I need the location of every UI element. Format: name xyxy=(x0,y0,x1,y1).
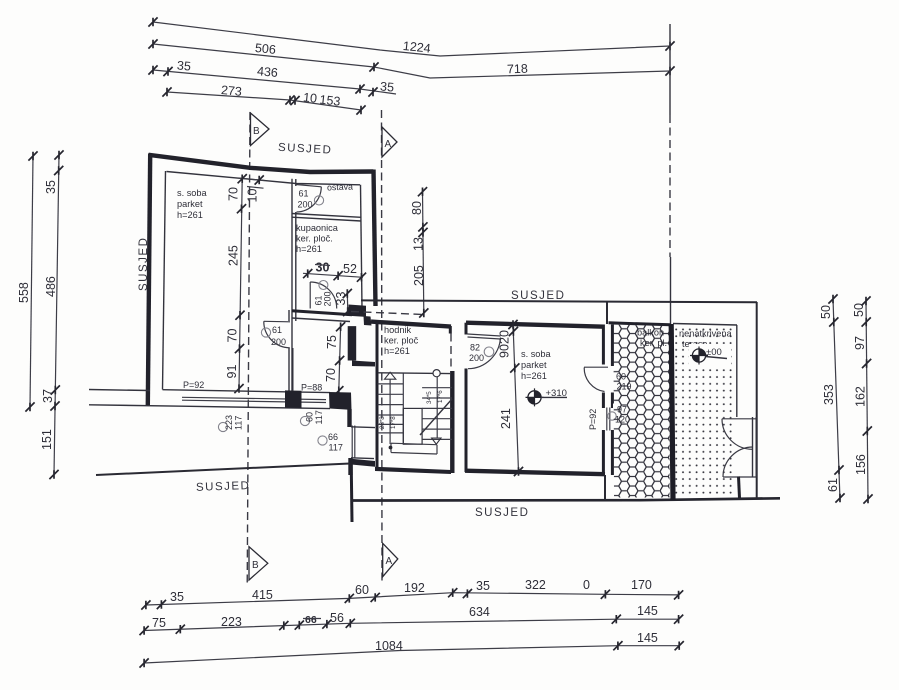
svg-text:82: 82 xyxy=(470,343,480,353)
hodnik label xyxy=(384,325,419,356)
svg-text:A: A xyxy=(386,556,393,567)
svg-text:nenatkrivena: nenatkrivena xyxy=(679,329,732,339)
window 97/120 xyxy=(607,404,633,431)
wall corner block bottom right xyxy=(329,392,352,410)
left dimension chain 558 / 151 outer xyxy=(17,151,38,411)
vestibule west wall upper xyxy=(347,409,351,427)
bottom window band (windows 223 and 60) xyxy=(163,390,331,409)
s.soba2 top wall xyxy=(466,323,604,327)
dimension line 35 / 436 / 35 xyxy=(148,58,396,96)
right dimension chain 50 / 97 / 162 / 156 xyxy=(852,296,873,503)
section marker B bottom xyxy=(249,547,268,580)
svg-text:A: A xyxy=(385,139,392,150)
section marker A bottom xyxy=(383,543,398,576)
walking line left + up arrow xyxy=(385,372,396,444)
bottom dimension row 35/415/60/192/35/322/0/170 xyxy=(141,578,683,610)
svg-text:436: 436 xyxy=(256,64,278,80)
section line A (dashed) xyxy=(381,110,384,584)
dimension line 273 / 10 / 153 xyxy=(162,83,365,115)
break line diagonal xyxy=(420,399,452,435)
svg-text:223: 223 xyxy=(224,415,234,430)
svg-text:1224: 1224 xyxy=(402,39,431,56)
svg-text:28*8: 28*8 xyxy=(379,416,386,429)
terasa door upper xyxy=(722,419,756,450)
svg-text:192: 192 xyxy=(404,581,425,595)
svg-text:35: 35 xyxy=(170,590,184,604)
walking line right + down arrow xyxy=(432,377,441,444)
svg-text:ostava: ostava xyxy=(327,182,353,193)
svg-text:P=92: P=92 xyxy=(183,380,204,390)
svg-text:151: 151 xyxy=(40,429,54,450)
svg-text:52: 52 xyxy=(343,262,357,276)
hodnik floor edge + circle xyxy=(378,370,450,377)
svg-text:37: 37 xyxy=(41,389,55,403)
svg-text:35: 35 xyxy=(380,79,395,94)
svg-text:200: 200 xyxy=(469,353,484,363)
svg-text:200: 200 xyxy=(323,291,333,306)
terasa wall below doors xyxy=(739,477,740,499)
hodnik top wall xyxy=(371,322,451,327)
level marker +310 xyxy=(526,388,568,406)
svg-text:20: 20 xyxy=(498,330,512,344)
svg-text:170: 170 xyxy=(631,578,652,592)
section marker A top xyxy=(382,127,397,157)
svg-text:273: 273 xyxy=(220,83,242,99)
dim 30 / 52 (kupaonica) xyxy=(303,261,366,282)
svg-text:415: 415 xyxy=(252,588,273,602)
wall top inner (left block) xyxy=(167,172,361,185)
svg-text:75: 75 xyxy=(152,616,166,630)
wall kupaonica bottom xyxy=(292,311,352,322)
junction wall piece (kupaonica SE corner) xyxy=(349,305,367,317)
ostava door 61/200 xyxy=(296,185,324,213)
svg-text:parket: parket xyxy=(177,199,203,209)
interior dim chain 70/245/70/91 xyxy=(225,174,265,393)
svg-text:kupaonica: kupaonica xyxy=(296,223,339,233)
wall top outer (left block) xyxy=(149,155,374,172)
svg-text:s. soba: s. soba xyxy=(521,349,552,359)
svg-text:61: 61 xyxy=(826,478,840,492)
svg-text:35: 35 xyxy=(176,58,191,73)
svg-text:162: 162 xyxy=(854,386,868,407)
s.soba2 bottom wall xyxy=(465,471,605,475)
terasa area (dots) xyxy=(673,302,757,498)
right dimension chain 50 / 353 / 61 xyxy=(819,294,845,502)
window label 223/117 xyxy=(218,415,243,432)
svg-text:70: 70 xyxy=(226,329,240,343)
stairs east wall xyxy=(450,371,454,473)
svg-text:70: 70 xyxy=(227,187,241,201)
kupaonica label xyxy=(296,223,339,254)
svg-text:ker. pl.: ker. pl. xyxy=(640,338,667,348)
svg-text:s. soba: s. soba xyxy=(177,188,208,198)
vestibule west wall lower xyxy=(348,458,352,475)
svg-text:h=261: h=261 xyxy=(296,244,322,254)
left flight treads xyxy=(378,384,404,433)
section line B (dashed) xyxy=(247,112,250,586)
dim chain 80/13/205 xyxy=(410,187,428,318)
svg-text:h=261: h=261 xyxy=(177,210,203,220)
svg-text:0: 0 xyxy=(583,578,590,592)
terasa door lower xyxy=(723,447,756,477)
left dimension chain 35 / 486 / 37 / 151 inner xyxy=(40,150,64,479)
svg-text:balkon: balkon xyxy=(637,328,664,338)
window label 60/117 xyxy=(300,410,324,425)
svg-text:h=261: h=261 xyxy=(521,371,547,381)
svg-text:353: 353 xyxy=(822,384,836,405)
SUSJED boundary line lower-left xyxy=(96,464,350,476)
dashed line at passage xyxy=(351,312,424,315)
right flight treads xyxy=(422,388,452,440)
svg-text:117: 117 xyxy=(234,416,244,430)
svg-text:117: 117 xyxy=(329,443,343,453)
svg-text:B: B xyxy=(252,560,259,571)
stairs xyxy=(375,371,452,474)
window 66 glazing xyxy=(351,426,375,459)
wall ostava/kupaonica (double line) xyxy=(292,214,361,222)
bottom dimension row 1084 / 145 xyxy=(140,631,684,668)
svg-text:205: 205 xyxy=(412,265,426,286)
SUSJED bottom line xyxy=(351,498,780,500)
svg-text:parket: parket xyxy=(521,360,547,370)
svg-text:B: B xyxy=(253,126,260,137)
svg-text:156: 156 xyxy=(854,454,868,475)
svg-text:91: 91 xyxy=(225,365,239,379)
witness line right (x=670) xyxy=(669,24,671,115)
svg-text:145: 145 xyxy=(637,631,658,645)
partition wall s.soba | ostava/kupaonica xyxy=(289,179,296,391)
terasa door frame xyxy=(753,417,757,478)
svg-text:35: 35 xyxy=(476,579,490,593)
svg-text:718: 718 xyxy=(507,62,528,77)
svg-text:90: 90 xyxy=(498,344,512,358)
dim chain 75 / 70 (passage openings) xyxy=(324,322,345,395)
svg-text:17*6: 17*6 xyxy=(437,390,444,403)
svg-text:506: 506 xyxy=(254,41,276,57)
svg-text:SUSJED: SUSJED xyxy=(475,507,529,519)
svg-text:145: 145 xyxy=(637,604,658,618)
hodnik west / stairs west wall xyxy=(376,322,379,468)
svg-text:322: 322 xyxy=(525,578,546,592)
svg-text:75: 75 xyxy=(325,335,339,349)
SUSJED top line (right block) xyxy=(361,300,757,302)
svg-text:61: 61 xyxy=(272,325,282,335)
junction wall piece horizontal xyxy=(352,361,375,367)
svg-text:P=88: P=88 xyxy=(301,383,322,393)
svg-text:10: 10 xyxy=(302,90,317,105)
room label s.soba parket h=261 xyxy=(177,188,208,220)
svg-text:153: 153 xyxy=(319,93,341,109)
svg-text:70: 70 xyxy=(324,368,338,382)
svg-text:200: 200 xyxy=(298,200,313,210)
wall left outer xyxy=(148,154,150,407)
stairs bottom wall xyxy=(375,467,451,474)
junction wall piece vertical (75 opening side) xyxy=(348,326,357,360)
section marker B top xyxy=(251,113,270,146)
svg-text:1084: 1084 xyxy=(375,639,403,653)
svg-text:634: 634 xyxy=(469,605,490,619)
svg-text:80: 80 xyxy=(410,201,424,215)
svg-text:245: 245 xyxy=(227,245,241,266)
hodnik right corner + dashed opening xyxy=(449,326,453,371)
bottom dimension row 75/223/66/56/634/145 xyxy=(140,604,684,635)
svg-text:60: 60 xyxy=(305,412,315,422)
dimension line 1224 (top) xyxy=(148,17,674,56)
svg-text:241: 241 xyxy=(499,408,513,429)
svg-text:50: 50 xyxy=(819,305,833,319)
kupaonica door 61/200 xyxy=(310,281,337,309)
stair void box xyxy=(403,408,422,444)
svg-text:P=92: P=92 xyxy=(588,409,598,430)
dim 33 (kupaonica) xyxy=(334,289,352,316)
svg-text:200: 200 xyxy=(271,337,286,347)
svg-text:±00: ±00 xyxy=(706,347,722,358)
svg-text:30: 30 xyxy=(316,261,330,275)
balcony door 60/219 xyxy=(584,367,636,391)
s.soba2 right wall xyxy=(603,302,612,500)
svg-text:13: 13 xyxy=(412,237,426,251)
svg-text:60: 60 xyxy=(355,583,369,597)
window pier (solid) xyxy=(285,390,302,408)
svg-text:97: 97 xyxy=(853,336,867,350)
svg-text:56: 56 xyxy=(330,611,344,625)
ledge lines left xyxy=(89,390,182,407)
wall right inner (left block) xyxy=(361,185,363,308)
svg-text:117: 117 xyxy=(314,410,324,424)
dim 90 / 241 (s.soba2) xyxy=(498,320,524,476)
svg-text:50: 50 xyxy=(852,303,866,317)
svg-text:SUSJED: SUSJED xyxy=(196,480,251,494)
wall left inner xyxy=(163,171,166,390)
svg-text:h=261: h=261 xyxy=(384,346,410,356)
svg-text:+310: +310 xyxy=(546,388,567,399)
window label 66/117 xyxy=(318,432,343,453)
dimension line 506 / 718 xyxy=(148,39,674,78)
svg-text:223: 223 xyxy=(221,615,242,629)
level marker +-00 xyxy=(689,344,731,366)
svg-text:66: 66 xyxy=(328,432,338,442)
s.soba2 door 82/200 xyxy=(468,334,501,369)
balkon area (hex tiles) xyxy=(609,323,674,500)
central divider xyxy=(402,374,404,445)
svg-text:558: 558 xyxy=(17,282,31,303)
svg-text:35: 35 xyxy=(44,180,58,194)
wall right outer (left block) xyxy=(374,170,376,307)
svg-text:61: 61 xyxy=(299,189,309,199)
svg-text:10: 10 xyxy=(246,189,260,203)
s.soba2 room label xyxy=(521,349,552,381)
svg-text:34*5: 34*5 xyxy=(426,391,433,404)
s.soba2 left wall xyxy=(465,323,468,472)
svg-text:ker. ploč.: ker. ploč. xyxy=(296,234,333,244)
svg-text:486: 486 xyxy=(44,276,58,297)
svg-text:hodnik: hodnik xyxy=(384,325,411,335)
passage door 61/200 (to s.soba) xyxy=(261,321,290,348)
svg-text:ker. ploč: ker. ploč xyxy=(384,336,419,346)
boundary wall tail (down to SUSJED line) xyxy=(350,462,354,522)
landing band xyxy=(391,443,437,454)
svg-text:17*8: 17*8 xyxy=(390,416,397,429)
vestibule bottom wall xyxy=(349,459,376,467)
svg-text:66: 66 xyxy=(305,614,317,626)
